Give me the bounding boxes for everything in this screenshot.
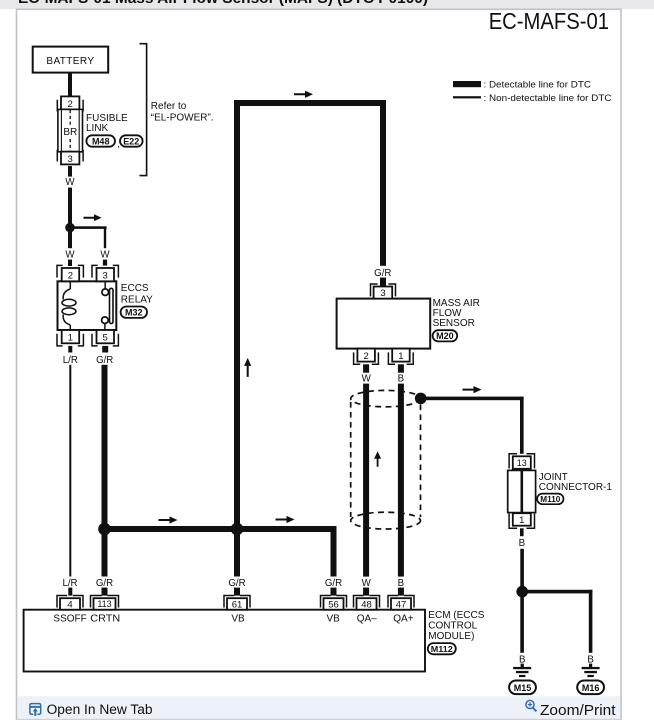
svg-text:3: 3 <box>380 288 385 299</box>
arrow right on branch <box>84 214 102 221</box>
connector oval E22 <box>120 135 143 146</box>
shield top ellipse (dashed) <box>351 390 421 406</box>
ECM pin 48 <box>354 596 380 608</box>
MAFS pin 1 <box>392 349 410 362</box>
svg-text:W: W <box>65 250 75 261</box>
arrow right on top run <box>294 91 313 98</box>
svg-text:M110: M110 <box>540 495 561 504</box>
connector oval M48 <box>86 135 115 146</box>
svg-text:VB: VB <box>327 614 341 625</box>
arrow right on drain wire <box>463 386 482 393</box>
svg-text:L/R: L/R <box>63 355 78 366</box>
fusible link body BR <box>58 109 83 151</box>
joint connector pin 1 <box>513 513 531 526</box>
wire stub W below MAFS pin 2 <box>363 364 369 372</box>
wire W fusible link to junction <box>68 166 72 177</box>
MAFS pin 3 <box>371 284 396 296</box>
svg-text:SENSOR: SENSOR <box>433 318 475 329</box>
svg-text:1: 1 <box>519 515 524 526</box>
svg-text:VB: VB <box>231 614 245 625</box>
bus wire G/R horizontal <box>102 526 337 532</box>
ECM pin 4 <box>57 596 83 608</box>
svg-text:Zoom/Print: Zoom/Print <box>540 702 616 719</box>
wire stub B below MAFS pin 1 <box>398 364 404 372</box>
svg-text:W: W <box>65 177 75 188</box>
svg-text:CRTN: CRTN <box>90 614 120 625</box>
ground oval M16 <box>577 681 604 695</box>
arrow right on bus 1 <box>159 516 178 523</box>
svg-text:EC-MAFS-01 Mass Air Flow Senso: EC-MAFS-01 Mass Air Flow Sensor (MAFS) (… <box>18 0 428 7</box>
fusible link pin 3 <box>61 152 79 165</box>
svg-text:W: W <box>100 250 110 261</box>
shield bottom ellipse (dashed) <box>351 512 421 529</box>
svg-text:B: B <box>398 373 404 384</box>
ECM box <box>24 610 425 672</box>
svg-text:M112: M112 <box>431 644 453 654</box>
battery <box>33 47 109 73</box>
svg-text:56: 56 <box>328 599 339 610</box>
svg-text:G/R: G/R <box>96 578 113 589</box>
joint connector body <box>508 470 536 512</box>
wire L/R relay to ECM <box>69 365 71 577</box>
svg-text:2: 2 <box>363 351 368 362</box>
svg-text:ECCS: ECCS <box>121 283 149 294</box>
drain wire to joint connector <box>421 397 524 401</box>
svg-text:: Non-detectable line for DTC: : Non-detectable line for DTC <box>484 93 612 104</box>
svg-text:2: 2 <box>68 270 73 281</box>
wire B MAFS to ECM pin 47 <box>398 384 404 577</box>
wire B joint connector to ground node <box>520 528 524 536</box>
arrow up on riser <box>244 358 251 377</box>
wire G/R down to MAFS <box>380 100 386 266</box>
ECM pin 56 <box>321 596 347 608</box>
top run wire G/R <box>234 100 386 106</box>
wire G/R bus junction to ECM pin 61 <box>234 529 240 577</box>
svg-text:QA–: QA– <box>357 614 377 625</box>
svg-text:1: 1 <box>398 351 403 362</box>
toolbar background <box>17 696 619 720</box>
svg-text:1: 1 <box>68 332 73 343</box>
svg-text:QA+: QA+ <box>393 614 413 625</box>
joint connector pin 13 <box>509 454 534 469</box>
svg-text:61: 61 <box>232 599 243 610</box>
svg-text:Open In New Tab: Open In New Tab <box>47 702 153 717</box>
legend thick bar <box>453 81 481 87</box>
svg-text:B: B <box>398 578 404 589</box>
relay pin 2 <box>57 265 83 277</box>
refer-to bracket <box>140 44 147 176</box>
arrow up inside shield <box>374 451 381 467</box>
ECM pin 113 <box>91 596 119 608</box>
svg-text:Refer to: Refer to <box>151 101 187 112</box>
toolbar icon open-in-new-tab <box>30 704 41 715</box>
svg-text:2: 2 <box>68 99 73 110</box>
svg-text:G/R: G/R <box>96 355 113 366</box>
relay switch contacts <box>104 281 106 289</box>
svg-text:M20: M20 <box>436 331 454 341</box>
svg-text:L/R: L/R <box>62 578 77 589</box>
shield drain node <box>415 393 427 405</box>
svg-text:SSOFF: SSOFF <box>53 614 86 625</box>
MAFS pin 2 <box>357 349 375 362</box>
ECM pin 61 <box>224 596 250 608</box>
legend thin bar <box>453 96 481 98</box>
svg-text:BATTERY: BATTERY <box>46 56 94 67</box>
connector oval M110 <box>537 494 563 505</box>
connector oval M20 <box>433 330 458 341</box>
ECCS relay box <box>58 281 117 330</box>
junction node A <box>65 223 75 233</box>
relay pin 1 <box>62 330 79 343</box>
svg-text:5: 5 <box>103 332 108 343</box>
connector oval M32 <box>121 307 147 318</box>
svg-text:M16: M16 <box>582 683 600 693</box>
ground oval M15 <box>509 681 536 695</box>
svg-text:W: W <box>362 373 372 384</box>
wire W into relay pin 2 <box>68 260 72 266</box>
ground junction node <box>516 586 528 598</box>
svg-text:RELAY: RELAY <box>121 294 153 305</box>
svg-text:13: 13 <box>517 458 527 468</box>
wire stub L/R below pin 1 <box>68 346 72 353</box>
fusible link pin 2 <box>57 100 83 112</box>
connector oval M112 <box>428 643 456 654</box>
svg-text:EC-MAFS-01: EC-MAFS-01 <box>489 8 609 34</box>
ground symbol M15 <box>521 664 524 668</box>
svg-text:G/R: G/R <box>325 578 342 589</box>
wire W battery to fusible link <box>68 73 72 97</box>
svg-text:48: 48 <box>361 599 372 610</box>
wire G/R bus junction to ECM pin 113 <box>102 529 108 577</box>
arrow right on bus 2 <box>276 516 295 523</box>
wire G/R relay to bus junction <box>102 365 108 529</box>
wire G/R down to pin 56 <box>331 526 337 577</box>
bus junction node right <box>231 523 244 536</box>
svg-text:CONNECTOR-1: CONNECTOR-1 <box>539 482 613 493</box>
wire G/R riser to top run <box>234 100 240 529</box>
wire B to ground M15 <box>520 592 524 653</box>
svg-text:ECM (ECCS: ECM (ECCS <box>428 610 484 621</box>
svg-text:CONTROL: CONTROL <box>428 621 477 632</box>
branch wire B to ground M16 <box>522 590 592 594</box>
svg-text:M48: M48 <box>92 136 110 146</box>
svg-text:B: B <box>519 538 525 549</box>
svg-text:G/R: G/R <box>374 268 391 279</box>
svg-text:MODULE): MODULE) <box>428 631 474 642</box>
svg-text:LINK: LINK <box>86 123 109 134</box>
shield side dashed lines <box>350 402 352 517</box>
relay pin 5 <box>97 330 115 343</box>
svg-text:4: 4 <box>67 599 72 610</box>
svg-text:E22: E22 <box>123 136 139 146</box>
svg-text:G/R: G/R <box>228 578 245 589</box>
relay coil <box>69 281 71 289</box>
svg-text:47: 47 <box>396 599 407 610</box>
svg-text:: Detectable line for DTC: : Detectable line for DTC <box>484 80 592 91</box>
svg-text:3: 3 <box>68 154 73 165</box>
relay switch blade <box>110 288 114 323</box>
svg-text:M32: M32 <box>125 308 143 318</box>
ECM pin 47 <box>388 596 414 608</box>
ground symbol M16 <box>589 664 592 668</box>
svg-text:M15: M15 <box>514 683 532 693</box>
svg-text:BR: BR <box>63 127 77 138</box>
svg-text:3: 3 <box>103 270 108 281</box>
wire stub G/R below pin 5 <box>102 346 108 353</box>
mass air flow sensor box <box>337 299 431 349</box>
top gray strip <box>0 0 654 9</box>
toolbar icon magnifier <box>526 700 536 711</box>
bus junction node left <box>98 523 111 536</box>
svg-text:“EL-POWER”.: “EL-POWER”. <box>151 113 214 124</box>
svg-text:W: W <box>362 578 372 589</box>
svg-text:113: 113 <box>97 599 111 609</box>
wire W MAFS to ECM pin 48 <box>363 384 369 577</box>
relay pin 3 <box>92 265 118 277</box>
branch wire W to relay pin 3 <box>68 226 107 229</box>
